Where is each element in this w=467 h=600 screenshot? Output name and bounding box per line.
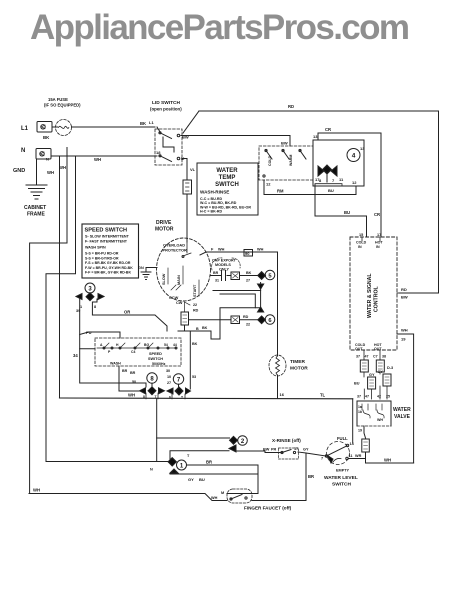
solenoid R cold: [360, 360, 368, 372]
svg-text:BR: BR: [122, 369, 128, 373]
svg-text:BR: BR: [308, 474, 314, 479]
svg-text:B: B: [196, 327, 199, 331]
wire L1 to fuse: [52, 126, 58, 128]
svg-text:TIMER: TIMER: [290, 359, 305, 365]
wire N row to node 1: [46, 461, 168, 463]
svg-text:3: 3: [88, 286, 92, 292]
svg-text:PR: PR: [271, 448, 277, 452]
lid switch S1: [150, 100, 189, 165]
svg-text:1a: 1a: [358, 405, 362, 409]
wire valve bottom to thermal box: [364, 426, 366, 438]
fuse/thermal box on VL line: [183, 180, 192, 194]
svg-text:S-S = BR-GY/RD-OR: S-S = BR-GY/RD-OR: [85, 256, 119, 260]
svg-text:WATER: WATER: [216, 168, 238, 174]
speed switch contact box: [95, 338, 181, 366]
svg-text:WARM: WARM: [289, 155, 293, 166]
svg-text:CW: CW: [176, 300, 183, 305]
svg-text:8: 8: [143, 395, 145, 399]
svg-text:34: 34: [73, 353, 78, 358]
svg-text:MODELS: MODELS: [215, 263, 231, 267]
svg-text:17: 17: [377, 233, 381, 237]
svg-text:F-W = BR-PU, GY-WH RD-BK: F-W = BR-PU, GY-WH RD-BK: [85, 266, 133, 270]
wire node2 return to node1: [170, 451, 229, 459]
svg-text:WH: WH: [59, 165, 66, 170]
svg-text:S- SLOW INTERMITTENT: S- SLOW INTERMITTENT: [85, 235, 130, 239]
svg-text:C7: C7: [373, 355, 378, 359]
wire water level switch 11 to WH bottom row: [348, 459, 366, 464]
svg-text:SPEED SWITCH: SPEED SWITCH: [85, 228, 128, 234]
wire N row: [51, 155, 157, 157]
wire x-rinse row to circle2 branch: [235, 451, 281, 453]
svg-text:SWITCH: SWITCH: [215, 182, 239, 188]
node 1 connector: [150, 454, 190, 473]
wire motor top row to timer drop: [200, 252, 278, 255]
node 6 connector: [258, 315, 275, 325]
svg-text:11: 11: [349, 454, 353, 458]
svg-text:BU: BU: [354, 382, 360, 386]
svg-text:GN: GN: [138, 266, 144, 270]
svg-text:SLOW: SLOW: [162, 273, 166, 285]
svg-text:WH: WH: [128, 393, 135, 398]
svg-text:14: 14: [350, 442, 355, 446]
svg-text:M: M: [221, 491, 224, 495]
svg-text:H-C = BK-RD: H-C = BK-RD: [200, 210, 222, 214]
svg-text:7: 7: [321, 457, 323, 461]
svg-text:OUT: OUT: [374, 347, 382, 351]
svg-text:P: P: [108, 350, 111, 354]
svg-text:F- FAST INTERMITTENT: F- FAST INTERMITTENT: [85, 240, 128, 244]
svg-text:GND: GND: [13, 168, 25, 174]
svg-text:BK: BK: [43, 135, 50, 140]
node 5 connector: [258, 270, 275, 280]
svg-text:F-F = BR-BK, GY-BK RD-BK: F-F = BR-BK, GY-BK RD-BK: [85, 271, 131, 275]
svg-text:EMPTY: EMPTY: [336, 469, 350, 473]
cap export models dashed enclosure: [212, 258, 241, 270]
svg-text:44: 44: [173, 343, 177, 347]
svg-text:12: 12: [266, 182, 271, 187]
wire fuse to lid switch: [72, 126, 156, 128]
svg-text:31: 31: [215, 279, 219, 283]
svg-text:S-S = BR-PU RD-OR: S-S = BR-PU RD-OR: [85, 252, 119, 256]
svg-text:16: 16: [280, 392, 285, 397]
svg-text:39: 39: [76, 309, 80, 313]
wire thermal box to bottom WH row: [365, 452, 367, 463]
wire GY BU row: [170, 474, 258, 494]
svg-text:X-RINSE (off): X-RINSE (off): [272, 438, 301, 443]
wire x-rinse loop down to finger faucet: [252, 453, 306, 501]
svg-text:RD: RD: [288, 104, 294, 109]
svg-text:WR: WR: [355, 454, 362, 458]
wire lid switch M down: [182, 159, 187, 181]
wire right edge RD down: [399, 111, 439, 293]
svg-text:F-S = BR-BK GY-BK RD-OR: F-S = BR-BK GY-BK RD-OR: [85, 261, 131, 265]
wire CR from temp block top to water control HOT IN: [318, 133, 381, 237]
svg-text:7: 7: [332, 178, 335, 183]
svg-text:SWITCH: SWITCH: [148, 357, 163, 361]
svg-text:BR: BR: [213, 271, 219, 275]
wire row to node 6: [189, 319, 232, 321]
speed switch legend box: [82, 224, 139, 278]
svg-text:15A FUSE: 15A FUSE: [48, 97, 68, 102]
svg-text:(open position): (open position): [150, 107, 182, 112]
svg-text:1: 1: [80, 305, 82, 309]
svg-text:WASH SPIN: WASH SPIN: [85, 246, 106, 250]
svg-text:VALVE: VALVE: [394, 414, 411, 420]
svg-text:CR: CR: [325, 127, 331, 132]
thermal box row6: [231, 316, 240, 324]
svg-text:(IF SO EQUIPPED): (IF SO EQUIPPED): [44, 103, 81, 108]
svg-text:T: T: [187, 454, 190, 458]
svg-text:DRIVE: DRIVE: [156, 220, 172, 226]
svg-text:WH: WH: [377, 418, 383, 422]
x-rinse switch: [263, 438, 301, 459]
svg-text:TL: TL: [320, 393, 326, 398]
svg-text:FRAME: FRAME: [27, 212, 45, 218]
svg-text:FINGER FAUCET (off): FINGER FAUCET (off): [244, 506, 292, 511]
water temp switch legend box: [197, 163, 258, 215]
terminal N: [21, 148, 51, 162]
svg-text:BR: BR: [206, 460, 212, 465]
svg-text:OR: OR: [124, 310, 130, 315]
thermal box row5: [231, 272, 240, 280]
svg-text:13: 13: [313, 134, 318, 139]
svg-text:WH: WH: [401, 328, 408, 333]
svg-text:BK: BK: [202, 326, 208, 330]
svg-text:MAIN: MAIN: [177, 275, 181, 285]
svg-text:START: START: [193, 284, 197, 297]
svg-text:BK: BK: [140, 121, 146, 126]
svg-text:WH: WH: [384, 458, 391, 463]
wire bottom WH row under valve: [366, 462, 414, 464]
drive motor M1: [157, 238, 211, 305]
wire long bottom row y398: [60, 397, 353, 400]
svg-text:WASH: WASH: [110, 362, 121, 366]
svg-text:22: 22: [193, 303, 197, 307]
svg-text:MOTOR: MOTOR: [155, 227, 174, 233]
svg-text:AppliancePartsPros.com: AppliancePartsPros.com: [30, 8, 410, 47]
solenoid R2 cold lower: [368, 377, 376, 389]
wire RM from dashed box to temp block pin 12: [264, 180, 356, 195]
water valve box: [357, 401, 411, 433]
svg-text:COLD: COLD: [268, 155, 272, 166]
svg-text:F: F: [211, 248, 214, 252]
wire stub loop between node5 and node6 rows: [260, 283, 262, 311]
water temp switch block with node 4: [313, 134, 365, 186]
svg-text:6: 6: [169, 396, 171, 400]
node RD/BW on control right edge: [397, 292, 399, 294]
svg-text:BW: BW: [401, 295, 408, 300]
svg-text:42: 42: [377, 395, 381, 399]
svg-text:CR: CR: [374, 212, 380, 217]
svg-text:BU: BU: [344, 210, 350, 215]
svg-text:27: 27: [246, 279, 250, 283]
svg-text:RD: RD: [193, 309, 199, 313]
svg-text:BW: BW: [281, 141, 288, 146]
wire to node 5: [240, 275, 258, 277]
node 7 connector: [166, 369, 191, 400]
finger faucet switch: [221, 489, 292, 511]
wire diagonal lid switch to top RD row: [183, 111, 199, 133]
wire left staircase v2: [46, 156, 76, 462]
wire node3 right leg down to OR row: [92, 299, 167, 331]
wire timer motor vertical: [277, 252, 279, 398]
svg-text:WATER: WATER: [393, 407, 411, 413]
wire motor bottom elbow BK: [178, 325, 220, 339]
node 2 connector: [229, 436, 247, 452]
svg-text:H: H: [116, 343, 119, 347]
node 8 connector: [130, 371, 165, 399]
node 3 connector: [76, 283, 104, 309]
water and signal control box: [350, 233, 397, 351]
svg-text:4: 4: [352, 153, 356, 160]
svg-text:MOTOR: MOTOR: [290, 366, 308, 372]
svg-text:10: 10: [167, 375, 171, 379]
svg-text:13: 13: [360, 146, 365, 151]
svg-text:CAP EXPORT: CAP EXPORT: [212, 259, 237, 263]
svg-text:GY: GY: [369, 373, 375, 377]
wire WH from control right edge down to valve loop: [397, 334, 414, 463]
svg-text:N: N: [46, 157, 49, 162]
svg-text:6: 6: [268, 318, 272, 324]
svg-text:12: 12: [352, 180, 357, 185]
wire VL down to motor top: [186, 194, 188, 242]
svg-text:8: 8: [150, 376, 154, 382]
fuse F1 15A: [44, 97, 81, 136]
svg-text:N: N: [21, 148, 25, 154]
svg-text:WH: WH: [211, 496, 218, 500]
svg-text:GY: GY: [188, 477, 194, 482]
svg-text:1: 1: [180, 463, 184, 469]
svg-text:WATER & SIGNAL: WATER & SIGNAL: [367, 273, 373, 318]
svg-text:T: T: [181, 396, 184, 400]
svg-text:90: 90: [245, 251, 250, 256]
svg-text:54: 54: [164, 343, 168, 347]
ground at motor: [138, 266, 157, 280]
svg-text:WH: WH: [218, 248, 225, 252]
wire node3 left leg down: [80, 299, 146, 387]
wire down to water level switch full pin: [352, 399, 354, 443]
wires solenoids to valve pin row: [364, 372, 387, 399]
svg-text:38: 38: [382, 355, 386, 359]
timer motor TM: [269, 355, 308, 376]
terminal L1: [21, 122, 52, 141]
svg-text:RD: RD: [243, 315, 249, 319]
wire bottom WH row to finger faucet: [29, 494, 227, 501]
svg-text:N: N: [150, 468, 153, 472]
svg-text:7: 7: [177, 377, 181, 383]
wire speed switch left pin down to node8: [119, 366, 143, 391]
svg-text:19: 19: [401, 337, 406, 342]
wire top RD row: [199, 110, 439, 112]
water level switch: [321, 436, 358, 488]
svg-text:47: 47: [365, 355, 369, 359]
svg-text:15: 15: [359, 233, 363, 237]
svg-text:50/60Hz: 50/60Hz: [152, 362, 166, 366]
svg-text:30: 30: [166, 369, 170, 373]
svg-text:VL: VL: [190, 167, 196, 172]
svg-text:PU: PU: [86, 330, 92, 335]
svg-text:17: 17: [294, 447, 298, 451]
svg-text:T: T: [234, 447, 237, 451]
solenoid R hot: [376, 360, 384, 372]
wire node1 BR row: [187, 465, 259, 474]
solenoid R2 hot lower: [383, 374, 391, 386]
svg-text:CABINET: CABINET: [24, 205, 46, 211]
svg-text:37: 37: [357, 395, 361, 399]
svg-text:L1: L1: [21, 126, 29, 132]
svg-text:GY: GY: [303, 448, 309, 452]
wire left staircase v1 (WH): [30, 148, 67, 494]
water temp switch contacts dashed box: [259, 146, 313, 187]
wire branch to node 2: [157, 437, 230, 439]
svg-text:17: 17: [315, 177, 320, 182]
svg-text:SPEED: SPEED: [149, 352, 162, 356]
svg-text:IN: IN: [358, 245, 362, 249]
wire from long row down to node 1: [156, 399, 158, 462]
ground symbol: [13, 159, 47, 218]
svg-text:IN: IN: [376, 245, 380, 249]
wire 53 drop to node7: [189, 331, 191, 389]
wire BU jumper and drop to COLD IN: [315, 184, 342, 186]
thermal fuse box near valve: [362, 439, 370, 452]
svg-text:22: 22: [246, 323, 250, 327]
svg-text:RM: RM: [277, 189, 284, 194]
svg-text:L1: L1: [149, 120, 154, 125]
svg-text:RD: RD: [401, 287, 407, 292]
svg-text:A: A: [100, 343, 103, 347]
svg-text:WASH-RINSE: WASH-RINSE: [200, 190, 229, 195]
svg-text:BK: BK: [246, 271, 252, 275]
svg-text:47: 47: [365, 395, 369, 399]
svg-text:8: 8: [94, 305, 96, 309]
svg-text:11: 11: [339, 177, 344, 182]
svg-text:WH: WH: [33, 488, 40, 493]
wire water level switch 7 to x-rinse: [298, 452, 326, 456]
svg-text:1b: 1b: [358, 410, 362, 414]
capacitor C1: [210, 271, 231, 283]
svg-text:25: 25: [386, 395, 390, 399]
svg-text:50: 50: [132, 380, 136, 384]
svg-text:BU: BU: [199, 477, 205, 482]
svg-text:2: 2: [241, 439, 245, 445]
svg-text:BK: BK: [192, 342, 198, 346]
svg-text:LID SWITCH: LID SWITCH: [152, 100, 181, 106]
wire lid switch BW to temp switch: [181, 136, 290, 147]
svg-text:WH: WH: [47, 170, 54, 175]
motor lower component box: [181, 312, 189, 325]
svg-text:FULL: FULL: [337, 436, 348, 441]
svg-text:19: 19: [358, 429, 362, 433]
svg-text:18: 18: [156, 150, 161, 155]
wire left staircase v3 (to bottom row): [59, 157, 61, 398]
svg-text:5: 5: [268, 273, 272, 279]
svg-text:PROTECTOR: PROTECTOR: [163, 248, 188, 253]
svg-text:BR: BR: [130, 371, 136, 375]
pressure 90 box on row: [244, 250, 253, 257]
svg-text:OUT: OUT: [355, 347, 363, 351]
svg-text:WATER LEVEL: WATER LEVEL: [324, 475, 358, 481]
svg-text:37: 37: [356, 355, 360, 359]
svg-text:CONTROL: CONTROL: [374, 286, 380, 312]
svg-text:BG: BG: [144, 343, 149, 347]
svg-text:WH: WH: [94, 157, 101, 162]
svg-text:SWITCH: SWITCH: [332, 482, 351, 488]
svg-text:53: 53: [192, 375, 196, 379]
svg-text:D-3: D-3: [387, 366, 393, 370]
svg-text:ONLY: ONLY: [219, 268, 229, 272]
svg-text:27: 27: [167, 381, 171, 385]
svg-text:BU: BU: [328, 188, 334, 193]
svg-text:WH: WH: [257, 248, 264, 252]
svg-text:C4: C4: [131, 350, 135, 354]
svg-text:TEMP: TEMP: [219, 175, 236, 181]
valve solenoid column pins under control: [364, 350, 380, 360]
